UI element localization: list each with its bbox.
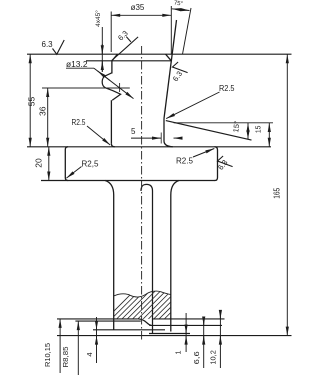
dim 36 line bbox=[47, 88, 49, 147]
leader R2.5 flange left bbox=[66, 167, 81, 179]
left outer wall upper bbox=[111, 60, 113, 73]
svg-text:165: 165 bbox=[273, 187, 282, 198]
bore dome bbox=[141, 184, 153, 191]
svg-text:15: 15 bbox=[254, 126, 263, 134]
svg-text:4x45°: 4x45° bbox=[94, 10, 102, 27]
dim 5 extension bbox=[160, 133, 162, 144]
roughness mark top left bbox=[53, 40, 65, 54]
cross hole profile bbox=[102, 73, 120, 100]
seat land edge bbox=[163, 119, 165, 142]
dim 10.2 top arrow bbox=[219, 311, 221, 319]
foot right top line bbox=[153, 318, 225, 320]
dim 5 left segment bbox=[131, 137, 161, 139]
flange bottom line bbox=[41, 180, 215, 182]
svg-text:36: 36 bbox=[37, 106, 47, 116]
dim 6.6 top arrow bbox=[203, 318, 205, 326]
leader R2.5 inner left bbox=[87, 126, 110, 145]
inner corner fillet left bbox=[111, 144, 114, 147]
dim 4 bottom arrow bbox=[96, 336, 98, 344]
svg-text:15°: 15° bbox=[231, 120, 241, 133]
o13.2 upper arrow bbox=[98, 71, 111, 81]
foot bottom line bbox=[57, 335, 292, 337]
svg-text:1: 1 bbox=[174, 350, 183, 354]
svg-text:20: 20 bbox=[34, 158, 44, 168]
svg-text:6,6: 6,6 bbox=[192, 351, 201, 364]
svg-text:ø35: ø35 bbox=[131, 3, 145, 12]
dim 10.2 line bbox=[219, 311, 221, 368]
flange left edge bbox=[65, 147, 68, 181]
roughness mark flange right bbox=[218, 156, 233, 167]
roughness check on chamfer bbox=[126, 37, 131, 42]
15deg horizontal reference bbox=[174, 122, 273, 124]
svg-text:R2.5: R2.5 bbox=[219, 84, 235, 93]
cross hole center vertical tick bbox=[119, 83, 121, 92]
svg-text:ø13.2: ø13.2 bbox=[66, 59, 88, 69]
svg-text:6.3: 6.3 bbox=[171, 69, 184, 83]
o35 right extension bbox=[170, 6, 172, 54]
dim R10.15 line bbox=[59, 319, 61, 373]
dim 4x45 bottom arrow bbox=[101, 61, 103, 72]
centerline bbox=[141, 46, 143, 341]
svg-text:R10,15: R10,15 bbox=[43, 343, 52, 367]
foot left upper line bbox=[57, 318, 138, 320]
dim 10.2 bottom arrow bbox=[219, 336, 221, 344]
75 slant reference bbox=[183, 8, 192, 54]
svg-text:75°: 75° bbox=[174, 0, 184, 7]
dim 6.6 bottom arrow bbox=[203, 336, 205, 344]
dim o35 line bbox=[111, 14, 171, 16]
chamfer bottom edge line bbox=[86, 60, 171, 62]
dim 4 top arrow bbox=[96, 322, 98, 330]
foot left second line bbox=[75, 320, 140, 322]
svg-text:4: 4 bbox=[85, 352, 94, 356]
right chamfer bbox=[166, 54, 172, 61]
section hatching bbox=[100, 280, 214, 325]
dim 4x45 line bbox=[101, 27, 103, 72]
dim 15 line bbox=[268, 123, 270, 147]
o35 left extension bbox=[110, 12, 112, 53]
inner wall left bbox=[110, 100, 112, 144]
15deg transition line bbox=[166, 121, 252, 141]
svg-text:R8,85: R8,85 bbox=[61, 347, 70, 368]
flange right edge bbox=[215, 147, 218, 181]
dim 4 line bbox=[96, 317, 98, 363]
foot lower line 2 bbox=[149, 333, 190, 335]
svg-text:55: 55 bbox=[27, 97, 37, 107]
cross hole center horizontal bbox=[42, 87, 130, 89]
left chamfer bbox=[112, 54, 118, 61]
dim 165 line bbox=[286, 54, 288, 335]
dim 6.6 line bbox=[203, 317, 205, 368]
dim R8.85 line bbox=[77, 321, 79, 375]
wavy break line bbox=[114, 291, 171, 297]
stem fillet left bbox=[105, 181, 114, 196]
bore wall right and tab edge bbox=[152, 191, 154, 334]
svg-text:R2.5: R2.5 bbox=[176, 156, 194, 165]
leader R2.5 cone bbox=[166, 92, 219, 119]
top face line bbox=[27, 53, 292, 55]
svg-text:R2.5: R2.5 bbox=[72, 118, 86, 127]
stem fillet right bbox=[171, 181, 179, 196]
stem wall left bbox=[113, 195, 115, 330]
land to flange fillet bbox=[164, 142, 173, 147]
svg-text:10,2: 10,2 bbox=[208, 350, 217, 365]
svg-text:5: 5 bbox=[131, 127, 136, 136]
dim 5 right segment bbox=[174, 137, 183, 139]
dim 55 line bbox=[29, 54, 31, 147]
dim 4x45 top arrow bbox=[101, 44, 103, 54]
cone line 75deg bbox=[164, 20, 177, 119]
leader R2.5 flange right bbox=[193, 149, 214, 158]
dim 1 top arrow bbox=[185, 327, 187, 334]
svg-text:R2,5: R2,5 bbox=[82, 159, 100, 168]
dim 1 bottom arrow bbox=[185, 336, 187, 344]
roughness tail on chamfer bbox=[112, 37, 138, 61]
stem wall right bbox=[170, 195, 172, 332]
o13.2 leader bbox=[94, 68, 134, 98]
foot lower line 1 bbox=[93, 329, 165, 331]
roughness mark on cone bbox=[173, 62, 188, 73]
15deg angle arrows bbox=[247, 123, 249, 139]
dim 75 arc bbox=[172, 9, 190, 11]
foot mid line bbox=[149, 324, 222, 326]
dim 20 line bbox=[48, 147, 50, 181]
svg-text:6.3: 6.3 bbox=[116, 29, 130, 43]
foot s-curve bbox=[138, 319, 152, 326]
svg-text:6.3: 6.3 bbox=[42, 40, 54, 49]
o13.2 shelf bbox=[66, 67, 94, 69]
flange top line bbox=[27, 146, 271, 148]
dim 1 line bbox=[185, 313, 187, 352]
